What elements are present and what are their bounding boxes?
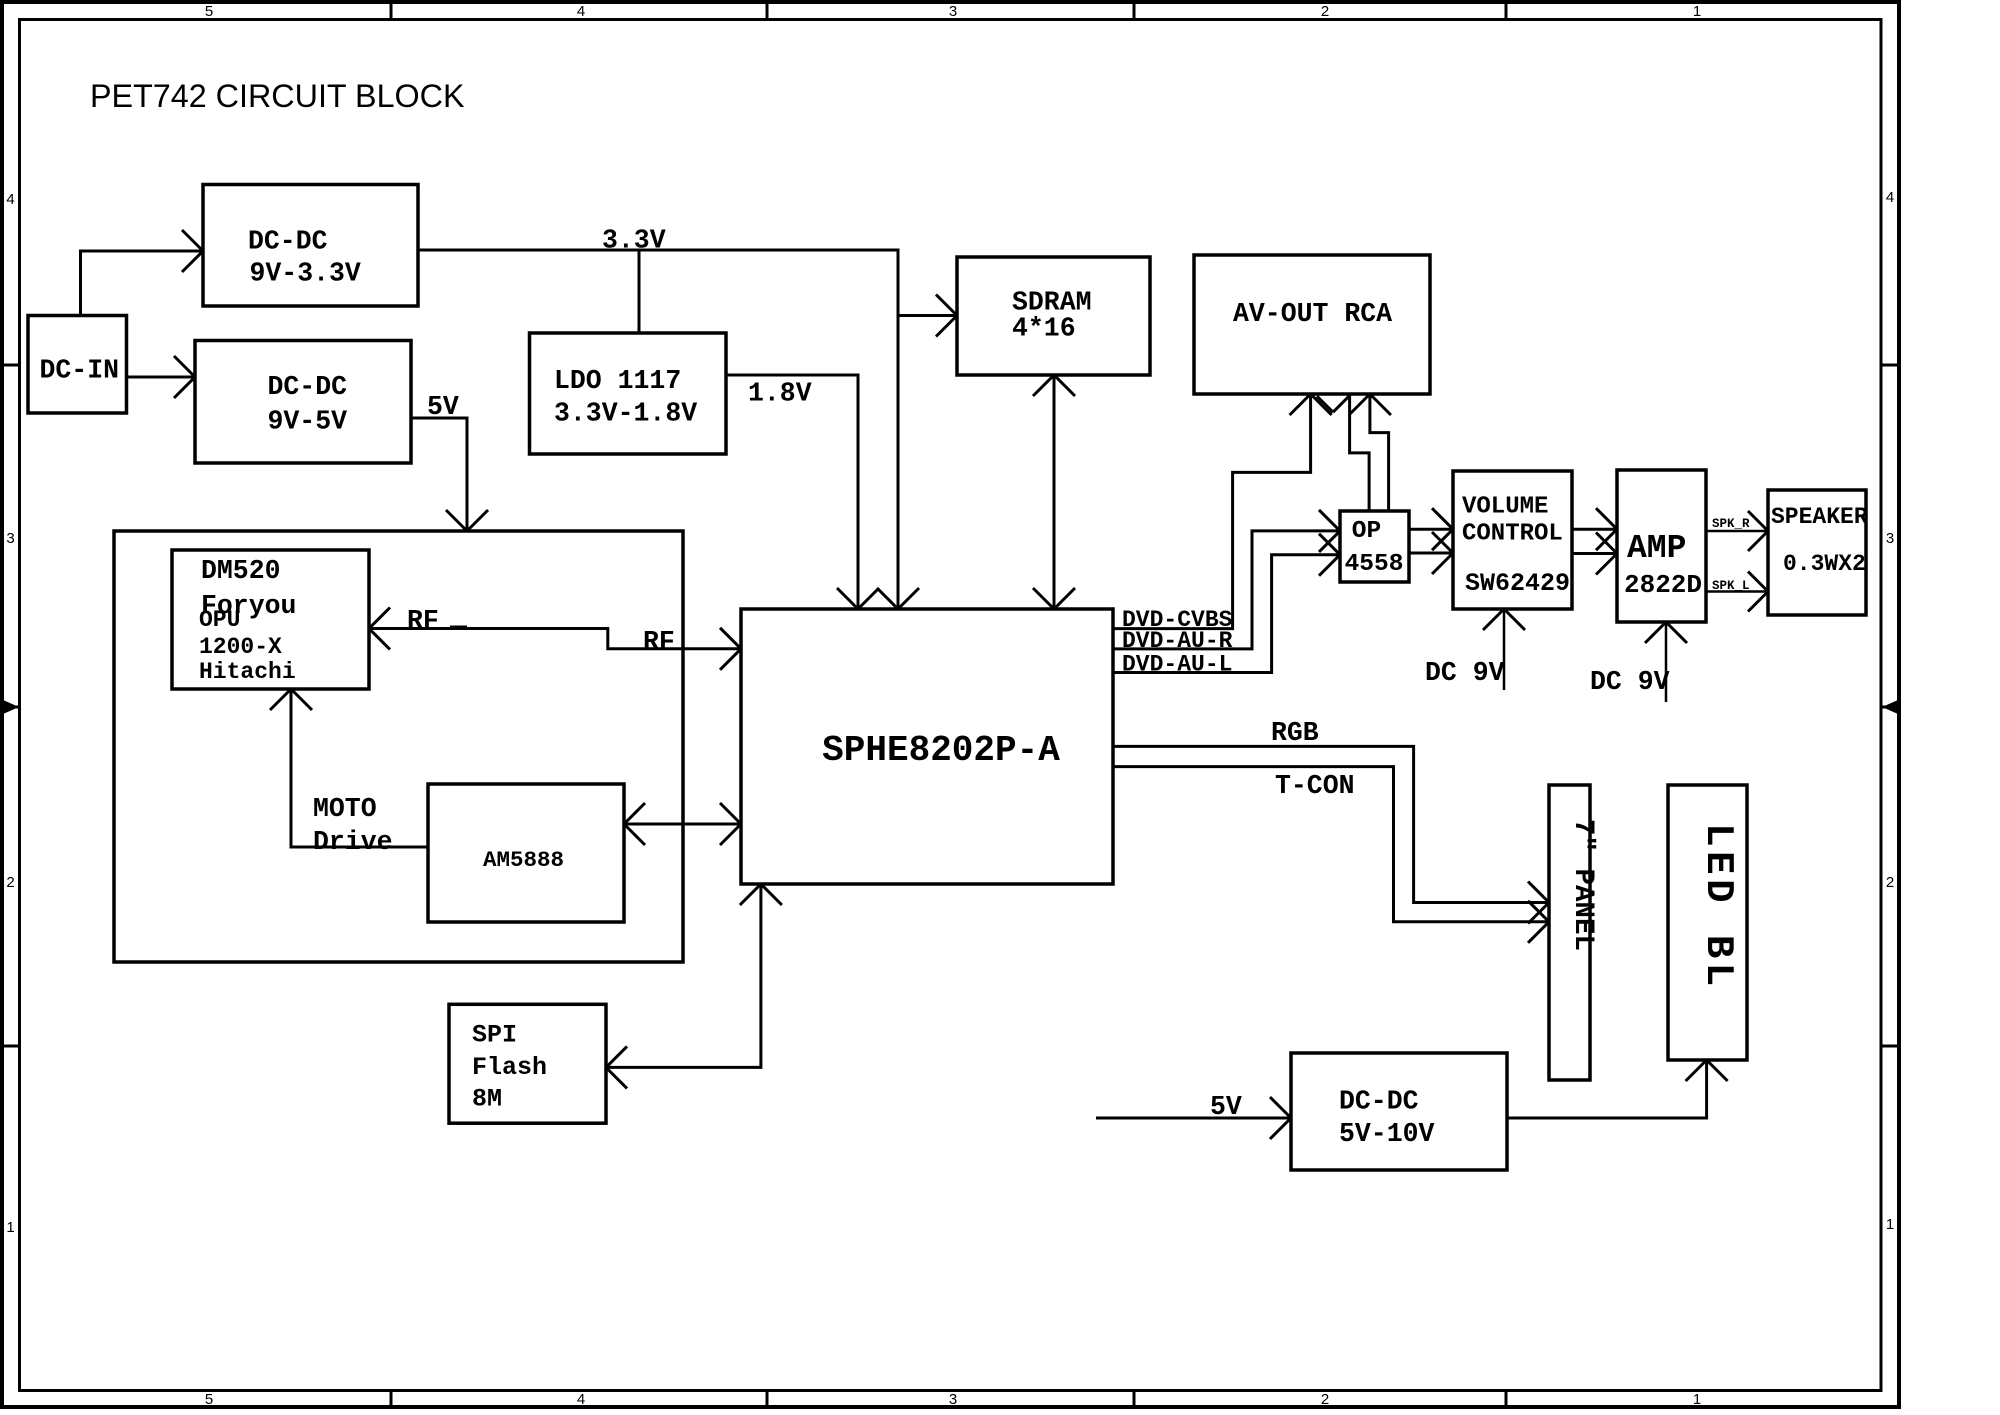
svg-text:LDO 1117: LDO 1117: [554, 366, 681, 396]
wire VOLUME to AMP upper: [1572, 528, 1617, 531]
wire RGB to panel: [1113, 746, 1549, 902]
wire 1.8V net: [726, 375, 858, 609]
svg-text:Drive: Drive: [313, 827, 393, 857]
wire T-CON to panel: [1113, 767, 1549, 922]
arrow into SDRAM bottom: [1033, 375, 1054, 396]
svg-text:DC 9V: DC 9V: [1590, 667, 1670, 697]
svg-text:RF: RF: [643, 627, 675, 657]
svg-text:3.3V: 3.3V: [602, 226, 666, 256]
svg-text:5: 5: [205, 1391, 213, 1408]
svg-text:1: 1: [6, 1219, 14, 1236]
block AMP 2822D: [1617, 470, 1706, 622]
wire DC 9V into VOLUME CONTROL: [1503, 609, 1506, 690]
block VOLUME CONTROL SW62429: [1453, 471, 1572, 609]
block AM5888: [428, 784, 624, 922]
svg-text:2: 2: [1886, 874, 1894, 891]
wire 5V net to mechanism: [411, 418, 467, 531]
svg-text:3: 3: [949, 3, 957, 20]
svg-text:SPK_R: SPK_R: [1712, 517, 1750, 531]
svg-text:SPEAKER: SPEAKER: [1771, 504, 1868, 530]
arrow RGB into panel: [1528, 882, 1549, 903]
svg-text:5V: 5V: [1210, 1092, 1242, 1122]
svg-text:DC-DC: DC-DC: [268, 372, 348, 402]
wire RF from SPHE to DM520: [369, 629, 741, 649]
svg-text:5V-10V: 5V-10V: [1339, 1119, 1435, 1149]
svg-text:4: 4: [6, 191, 14, 208]
svg-text:1.8V: 1.8V: [748, 379, 812, 409]
border zone ticks top: [390, 2, 393, 20]
svg-text:SPI: SPI: [472, 1021, 517, 1050]
svg-text:DC-DC: DC-DC: [248, 227, 328, 257]
arrow 5V into container top: [446, 510, 467, 531]
svg-text:9V-3.3V: 9V-3.3V: [250, 259, 361, 289]
svg-text:DM520: DM520: [201, 556, 281, 586]
block SPEAKER 0.3WX2: [1768, 490, 1866, 615]
wire AMP to SPEAKER SPK_L: [1706, 590, 1768, 593]
svg-text:1: 1: [1886, 1216, 1894, 1233]
border zone ticks bottom: [390, 1391, 393, 1408]
wire DVD-AU-R to OP 4558: [1112, 531, 1340, 649]
wire MOTO Drive DM520 to AM5888: [291, 689, 428, 847]
svg-text:AM5888: AM5888: [483, 847, 564, 873]
svg-text:Hitachi: Hitachi: [199, 659, 296, 685]
block DC-DC 9V-3.3V: [203, 185, 418, 307]
arrow into SPHE top from SDRAM: [1033, 588, 1054, 609]
block SPI Flash 8M: [449, 1004, 606, 1123]
svg-text:DC-IN: DC-IN: [40, 356, 120, 386]
arrow DVD-AU-R into OP left: [1319, 510, 1340, 531]
block DM520 Foryou OPU 1200-X Hitachi: [172, 550, 369, 689]
border mid arrow right: [1882, 700, 1898, 714]
wire SPHE to SPI Flash: [606, 884, 761, 1067]
wire VOLUME to AMP lower: [1572, 552, 1617, 555]
svg-text:RGB: RGB: [1271, 718, 1319, 748]
svg-text:2: 2: [6, 874, 14, 891]
svg-text:DC 9V: DC 9V: [1425, 658, 1505, 688]
svg-text:3: 3: [1886, 530, 1894, 547]
svg-text:9V-5V: 9V-5V: [268, 407, 348, 437]
arrow into SDRAM left: [936, 295, 957, 316]
arrow T-CON into panel: [1528, 901, 1549, 922]
arrow into SPI Flash right: [606, 1046, 627, 1067]
arrow MOTO into DM520 bottom: [270, 689, 291, 710]
wire DVD-CVBS to AV-OUT: [1112, 394, 1311, 629]
arrow RF into DM520 right: [369, 608, 390, 629]
arrow DVD-CVBS into AV-OUT bottom: [1290, 394, 1311, 415]
wire AV-OUT to OP line A: [1350, 394, 1370, 511]
arrow DVD-AU-L into OP left: [1319, 534, 1340, 555]
arrow 3.3V into SPHE top: [877, 588, 898, 609]
wire AMP to SPEAKER SPK_R: [1706, 530, 1768, 533]
border zone ticks left: [2, 364, 20, 367]
arrow into SPHE left from AM5888: [720, 803, 741, 824]
svg-text:4558: 4558: [1345, 551, 1404, 578]
svg-text:OP: OP: [1352, 518, 1381, 545]
wire DC 9V into AMP: [1665, 622, 1668, 702]
svg-text:3.3V-1.8V: 3.3V-1.8V: [554, 399, 697, 429]
block DC-DC 9V-5V: [195, 341, 411, 464]
wire OP to VOLUME CONTROL upper: [1409, 528, 1453, 531]
wire OP to VOLUME CONTROL lower: [1409, 552, 1453, 555]
svg-text:LED BL: LED BL: [1696, 823, 1740, 990]
wire DC-DC 5V-10V to LED BL: [1507, 1060, 1707, 1118]
block SPHE8202P-A: [741, 609, 1113, 884]
svg-text:1: 1: [1693, 1391, 1701, 1408]
block DVD mechanism container: [114, 531, 683, 962]
arrow into SPHE bottom: [740, 884, 761, 905]
block LED BL: [1668, 785, 1747, 1060]
svg-text:3: 3: [6, 530, 14, 547]
svg-text:MOTO: MOTO: [313, 794, 377, 824]
wire AV-OUT to OP line B: [1370, 394, 1389, 511]
block OP 4558: [1340, 511, 1409, 582]
svg-text:CONTROL: CONTROL: [1462, 521, 1563, 548]
svg-text:2: 2: [1321, 1391, 1329, 1408]
block 7" PANEL: [1549, 785, 1590, 1080]
wire 3.3V branch to LDO 1117: [638, 250, 641, 334]
arrow into DC-DC 9V-3.3V: [182, 230, 203, 251]
svg-text:2: 2: [1321, 3, 1329, 20]
arrow into AM5888 right: [624, 803, 645, 824]
svg-text:7" PANEL: 7" PANEL: [1567, 819, 1598, 951]
block AV-OUT RCA: [1194, 255, 1430, 394]
svg-text:1200-X: 1200-X: [199, 634, 282, 660]
svg-text:4*16: 4*16: [1012, 314, 1076, 344]
svg-text:DVD-AU-R: DVD-AU-R: [1122, 628, 1233, 654]
wire AM5888 to SPHE: [624, 823, 741, 826]
wire SDRAM to SPHE: [1053, 375, 1056, 609]
arrow into LED BL bottom: [1686, 1060, 1707, 1081]
svg-text:4: 4: [577, 1391, 585, 1408]
arrow into AV-OUT bottom line B: [1349, 394, 1370, 415]
svg-text:5V: 5V: [427, 392, 459, 422]
svg-text:DVD-AU-L: DVD-AU-L: [1122, 652, 1232, 678]
svg-text:3: 3: [949, 1391, 957, 1408]
arrow into DC-DC 9V-5V: [174, 356, 195, 377]
svg-text:5: 5: [205, 3, 213, 20]
svg-text:2822D: 2822D: [1624, 570, 1702, 600]
wire 3.3V net: [418, 250, 898, 609]
wire 3.3V branch to SDRAM: [898, 314, 957, 317]
block DC-IN: [28, 316, 127, 414]
svg-text:SPHE8202P-A: SPHE8202P-A: [822, 730, 1060, 771]
svg-text:RF: RF: [407, 606, 439, 636]
svg-text:OPU: OPU: [199, 607, 240, 633]
arrow down from AV-OUT bottom: [1317, 396, 1333, 412]
label RF underscore: [450, 626, 467, 630]
svg-text:Flash: Flash: [472, 1053, 547, 1082]
svg-text:4: 4: [1886, 189, 1894, 206]
arrow 1.8V into SPHE top: [837, 588, 858, 609]
wire DVD-AU-L to OP 4558: [1112, 555, 1340, 673]
svg-text:SPK_L: SPK_L: [1712, 579, 1750, 593]
svg-text:8M: 8M: [472, 1085, 502, 1114]
svg-text:AV-OUT RCA: AV-OUT RCA: [1233, 299, 1392, 329]
svg-text:AMP: AMP: [1627, 530, 1686, 567]
svg-text:4: 4: [577, 3, 585, 20]
wire DC-IN to DC-DC 9V-3.3V: [81, 251, 204, 316]
svg-text:T-CON: T-CON: [1275, 771, 1355, 801]
wire DC-IN to DC-DC 9V-5V: [127, 376, 196, 379]
svg-text:0.3WX2: 0.3WX2: [1783, 551, 1866, 577]
border zone ticks right: [1881, 364, 1899, 367]
svg-text:PET742 CIRCUIT BLOCK: PET742 CIRCUIT BLOCK: [90, 78, 465, 114]
block LDO 1117 3.3V-1.8V: [530, 333, 727, 454]
block DC-DC 5V-10V: [1291, 1053, 1507, 1170]
arrow RF into SPHE left: [720, 628, 741, 649]
svg-text:1: 1: [1693, 3, 1701, 20]
block SDRAM 4*16: [957, 257, 1150, 375]
border mid arrow left: [3, 700, 19, 714]
svg-text:VOLUME: VOLUME: [1462, 494, 1548, 521]
wire 5V into DC-DC 5V-10V: [1096, 1117, 1291, 1120]
svg-text:DC-DC: DC-DC: [1339, 1087, 1419, 1117]
svg-text:SW62429: SW62429: [1465, 569, 1570, 598]
